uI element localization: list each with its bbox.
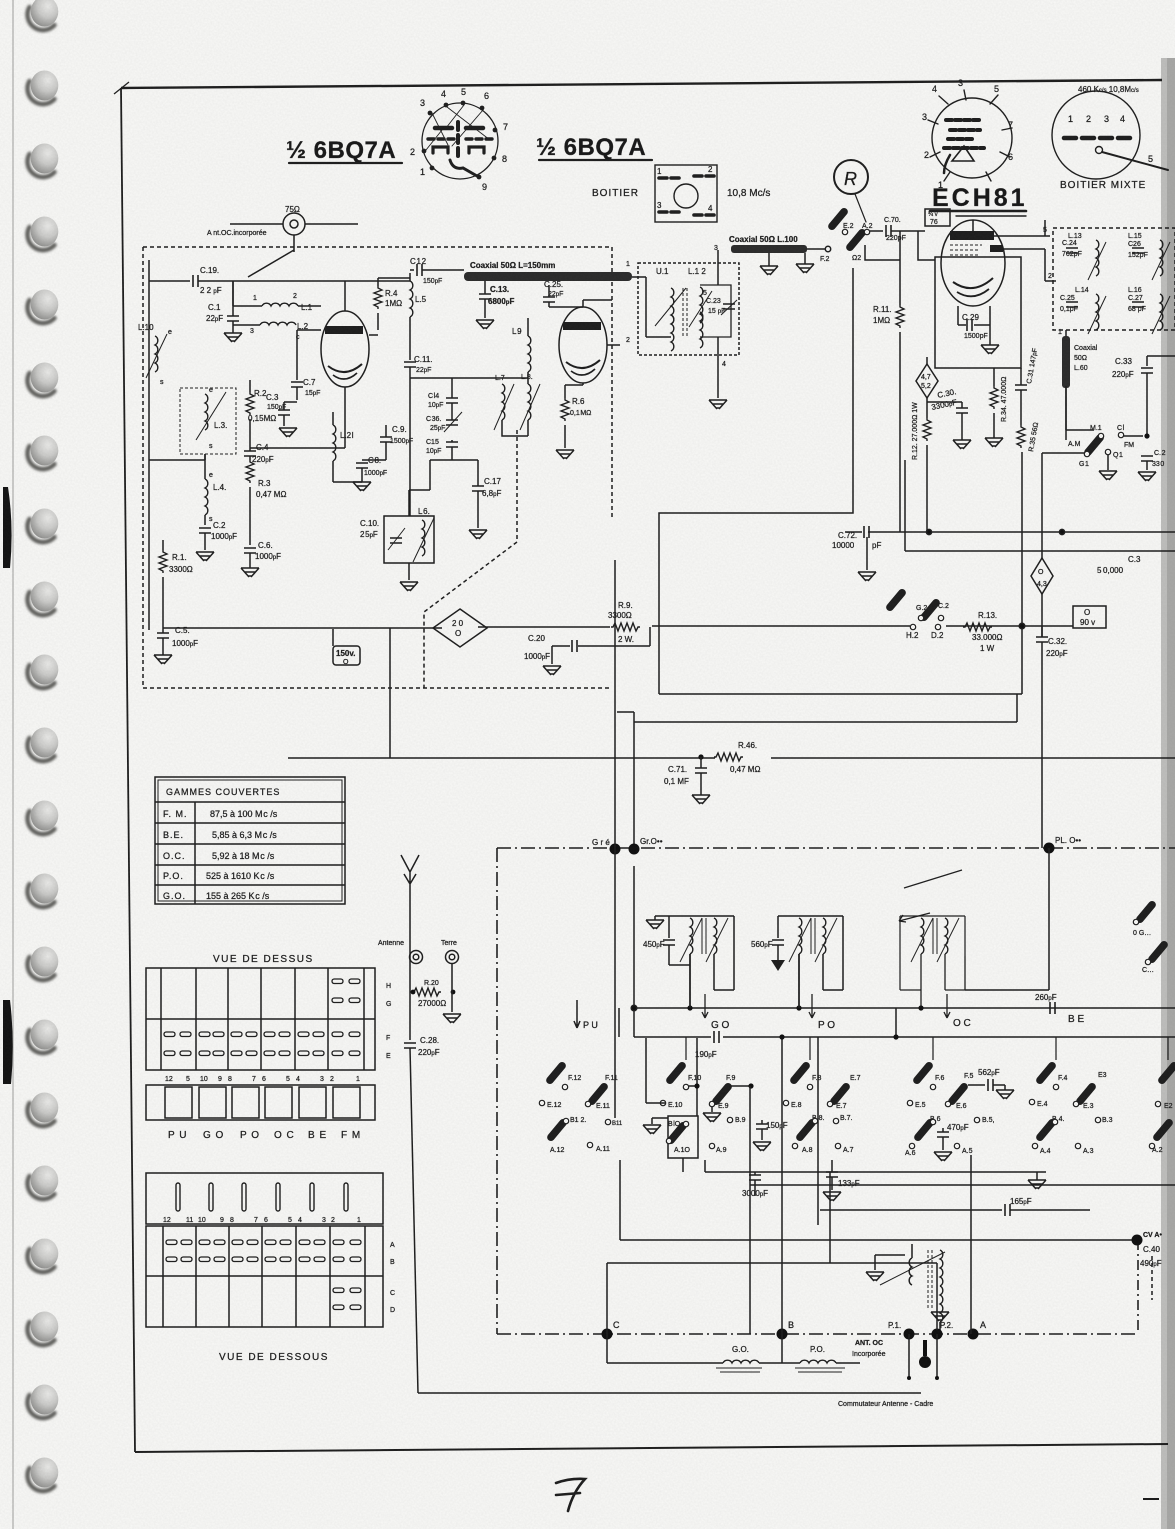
dashed notch [424, 430, 517, 688]
antenna symbol [401, 855, 419, 1040]
node P1 [888, 1321, 915, 1340]
90v box [1073, 606, 1106, 628]
wire y551 [905, 460, 1175, 551]
vertical Gr line x615 [614, 560, 616, 1118]
corner tick [114, 82, 129, 94]
coil L16 [1152, 294, 1170, 334]
capacitor C.28 [404, 1036, 440, 1393]
coax 50ohm L60 vertical [1058, 329, 1098, 440]
capacitor C.12 [410, 257, 442, 285]
numbers row [163, 1217, 361, 1224]
ground under R.34 [985, 438, 1003, 447]
U1 L12 transformer dashed box [626, 250, 739, 368]
capacitor C.19 [149, 266, 410, 295]
switch B.8 A.8 [792, 1115, 824, 1154]
loop antenna frame [607, 1263, 937, 1363]
capacitor C.30 [927, 387, 968, 440]
vertical node B feed [781, 1037, 783, 1334]
BOITIER MIXTE circle [1052, 91, 1168, 179]
switch F.6 [913, 1061, 945, 1089]
P.O. loop coil [795, 1345, 860, 1372]
contact E.12 [539, 1100, 561, 1109]
ground under C.34 [1138, 472, 1156, 481]
capacitor C.11 [404, 355, 433, 378]
coax cable 50ohm L150 [440, 261, 632, 281]
GO label [687, 954, 729, 1031]
switch F.8 [790, 1061, 822, 1089]
long wire from F2 area down-left [659, 268, 853, 694]
OC label [918, 994, 970, 1029]
capacitor C.9 [380, 425, 413, 455]
capacitor C.7 [291, 378, 320, 400]
node B [777, 1320, 795, 1340]
75 ohm antenna connector [283, 205, 305, 235]
chassis bus left vertical [496, 848, 498, 1334]
capacitor 560pF [772, 940, 784, 945]
rail verticals at F blades [686, 1037, 1168, 1060]
capacitor 133pF [826, 1160, 860, 1190]
coax 50ohm L100 (top) [714, 235, 807, 266]
C.3x 50.000pF label right [1097, 555, 1141, 575]
P1 P2 wires down [909, 1334, 937, 1378]
vertical x619 B10 box down [619, 1160, 621, 1240]
ground under L.6 box [400, 582, 418, 591]
ECH81 label [930, 184, 1028, 216]
resistor R.46 [714, 741, 771, 774]
secondary solid box [700, 285, 731, 337]
PO label [796, 954, 835, 1031]
3/4v 76 box [925, 209, 950, 226]
capacitor C.27 [1128, 295, 1146, 313]
core [683, 288, 687, 338]
band labels PU GO PO OC BE FM [168, 1130, 361, 1141]
left page edge line [12, 0, 14, 1529]
FM node [1117, 425, 1150, 449]
resistor R.34 [990, 368, 1008, 438]
capacitor C.15 [426, 439, 458, 460]
ground under C.2 [196, 552, 214, 561]
coil U1 primary [671, 288, 674, 324]
capacitor 3000pF [742, 1172, 768, 1198]
tube socket U1 (6BQ7A pinout) [410, 87, 508, 192]
G.O. loop coil [716, 1345, 762, 1372]
switch A.2 right [1149, 1118, 1173, 1154]
contact E.10 [660, 1100, 682, 1109]
switch H.2 D.2 G.2 C.2 [886, 588, 949, 640]
ground under C.20 [543, 666, 561, 675]
150v box [333, 629, 360, 666]
coil L.21 [333, 412, 354, 470]
ground under C.5 [154, 655, 172, 664]
ground under 470pF [934, 1152, 952, 1161]
chassis bus right vertical [1137, 1240, 1139, 1334]
switch E.9 [703, 1075, 735, 1122]
triode V2 [559, 307, 607, 383]
capacitor 150pF mid [756, 1120, 788, 1140]
ground under L12 [709, 400, 727, 409]
capacitor C.20 [524, 627, 650, 664]
E.10 wire up [646, 1038, 665, 1103]
wire antenna down [248, 235, 294, 277]
diamond 20 ohm [433, 609, 487, 647]
capacitor C.8 [356, 456, 387, 482]
binding holes [28, 0, 59, 1491]
top plate with vertical slots [146, 1173, 383, 1224]
black curl mark upper [3, 487, 12, 568]
tube label ½6BQ7A (first) [286, 137, 402, 164]
wire osc line down [409, 378, 411, 516]
lower collection wires [683, 1158, 1046, 1172]
capacitor C.14 [428, 385, 458, 415]
junction dots on y532 [926, 529, 931, 534]
switch row F/E [539, 1061, 1175, 1122]
capacitor C.24 [1062, 240, 1082, 258]
BOITIER box with crystal [655, 165, 717, 222]
transformer T3 (OC osc) [899, 870, 965, 1008]
capacitor C.5 [157, 626, 198, 655]
capacitor C.4 [244, 443, 274, 464]
switch E.3 [1073, 1072, 1106, 1110]
ground under C.17 [469, 530, 487, 539]
padder coils block [866, 1244, 949, 1330]
capacitor C.33 [1112, 356, 1175, 436]
right dashed box L13-L16 [1053, 228, 1175, 334]
resistor R.3 [246, 460, 286, 545]
vertical node A feed [970, 1155, 972, 1334]
rail lower y1037 [634, 1036, 1175, 1038]
transformer T1 (GO osc) [643, 916, 734, 1008]
ground at left of B10 box [643, 1118, 668, 1134]
ground under R.6 [556, 450, 574, 459]
box B.10 A.10 [666, 1038, 698, 1158]
coil L.1 [233, 293, 313, 312]
switch E.7 [827, 1075, 860, 1110]
slots row H [332, 979, 360, 984]
Terre label and jack [441, 940, 459, 964]
coil L.3 adjustable [196, 387, 227, 450]
slots row C [333, 1288, 361, 1293]
capacitor 470pF [937, 1123, 969, 1150]
switch B.4 A.4 [1032, 1116, 1064, 1155]
resistor R.1 [159, 540, 193, 628]
ECH81 tube envelope [941, 220, 1005, 306]
resistor R.35 [1017, 422, 1040, 453]
capacitor 260pF [1035, 993, 1084, 1025]
coil L.5 [410, 273, 427, 360]
node C [602, 1320, 621, 1340]
switch F.5 562pF [945, 1068, 1005, 1110]
frame left border [121, 88, 135, 1452]
diamond 0/4,3 [1031, 558, 1053, 637]
contact A.3 B.3 [1075, 1117, 1112, 1155]
rail GO/PO/OC y1008 [634, 1007, 1175, 1009]
switch E.2 A.2 [828, 207, 873, 262]
frame bottom border [135, 1444, 1168, 1452]
contact Q.1 with ground [1099, 449, 1123, 480]
main grid [146, 1226, 383, 1327]
ground under C.6 [241, 568, 259, 577]
wire dashed box pin up [1044, 220, 1046, 236]
chassis bus bottom [497, 1333, 1138, 1335]
VUE DE DESSUS switch grid [146, 968, 391, 1141]
coil L.4 [205, 454, 226, 525]
node P2 [932, 1321, 954, 1340]
row letters A B C D [390, 1242, 395, 1314]
slots row D [333, 1305, 361, 1310]
capacitor C.2 [199, 521, 237, 550]
vertical from V1 grid [297, 330, 321, 380]
capacitor 450pF [663, 940, 675, 945]
capacitor 165pF [820, 1197, 1090, 1216]
contact E.2 right [1155, 1101, 1172, 1110]
diamond 4,7/5,2 [916, 357, 938, 418]
contact A.5 B.5 [954, 1117, 994, 1155]
wire R.46 line y757 [288, 757, 1175, 759]
neutralization box around cathode [935, 257, 1021, 368]
wires ECH81 top [973, 220, 1050, 236]
F.10 junction [689, 1085, 697, 1087]
switch row B/A [547, 1038, 1174, 1161]
contact E.5 [907, 1100, 925, 1109]
contact A.9 [709, 1143, 726, 1154]
vertical x750 [749, 1086, 751, 1334]
coil L.8 adjustable [520, 374, 540, 430]
down arrow T2 [777, 952, 779, 960]
capacitor C.25 [543, 280, 583, 307]
GAMMES COUVERTES table [155, 777, 345, 904]
vertical from L6 area down to R46 line [389, 628, 391, 758]
coil L12 secondary [700, 287, 703, 323]
capacitor C.29 [958, 306, 990, 345]
handwritten page number 7 [556, 1479, 585, 1511]
capacitor C.1 [206, 281, 239, 333]
slots row B [166, 1257, 361, 1262]
switch F.12 [546, 1061, 582, 1089]
capacitor C.36 trimmer [426, 412, 462, 432]
wire grid left [902, 230, 925, 232]
slots row A [166, 1240, 361, 1245]
coil L.2 [233, 322, 309, 341]
resistor R.20 [410, 964, 455, 1012]
coil L15 [1152, 240, 1170, 280]
vertical to diamond 4,3 [1041, 453, 1043, 532]
switch A.M M.1 [1042, 386, 1104, 468]
capacitor C.26 [1128, 241, 1148, 259]
ground mid bottom [1028, 1180, 1046, 1189]
main AVC wire y627 [163, 626, 1073, 628]
coil L14 [1088, 294, 1106, 334]
vertical x830 [829, 1172, 831, 1263]
transformer T2 (PO osc) [751, 916, 843, 1008]
triode V1 [321, 311, 369, 387]
ground under coax left [760, 266, 778, 275]
PU feed to rail [618, 1008, 620, 1037]
wire L12 to ground [717, 337, 719, 398]
resistor R.11 [873, 231, 904, 532]
capacitor C.72 [832, 526, 1175, 570]
capacitor C.25b [1060, 295, 1078, 313]
capacitor 190pF [695, 1029, 723, 1059]
switch F.4 [1036, 1061, 1068, 1089]
ground under C.72 [858, 572, 876, 581]
lower cam boxes [146, 1085, 375, 1120]
resistor R.6 [561, 385, 591, 448]
tube socket ECH81 pinout [922, 78, 1013, 190]
switch B.12 A.12 [547, 1117, 587, 1154]
ground under C.30 [953, 440, 971, 449]
wire from R to A.2 [855, 194, 866, 222]
wire y1240 CV A [620, 1232, 1162, 1300]
resistor R.9 [608, 601, 640, 644]
ground under 562pF [996, 1090, 1014, 1099]
circled R [834, 160, 868, 194]
coil L.9 [512, 318, 531, 372]
capacitor C.17 [472, 460, 501, 528]
PU arrow [574, 1000, 598, 1030]
FM tuner dashed enclosure [143, 247, 612, 688]
capacitor C.31 [1015, 348, 1039, 425]
page dash right [1143, 1498, 1159, 1500]
ground under C.8 [353, 482, 371, 491]
vertical main x1042 [1041, 532, 1043, 558]
ground under C.1 [224, 333, 242, 342]
F.9 junction [731, 1085, 751, 1087]
contact E.8 [783, 1100, 801, 1109]
capacitor C.13 [479, 281, 514, 318]
capacitor C.70 [870, 217, 906, 242]
capacitor C.32 [1036, 626, 1068, 848]
capacitor C.23 trimmer [723, 304, 735, 309]
resistor R.12 [912, 402, 931, 532]
ground under C.29 [981, 345, 999, 354]
node Gr.e [592, 838, 621, 855]
right scan edge gray band [1161, 58, 1175, 1529]
slots row G [332, 998, 360, 1003]
wire L10-L4 junction [149, 454, 205, 460]
trimmer arrows [655, 288, 712, 327]
blade contacts right margin G/C [1133, 900, 1168, 974]
wires [632, 277, 671, 337]
vertical oscillator feed from Gr.Ose [633, 866, 635, 1037]
ground under coax right [796, 264, 814, 273]
C.10 L.6 resonator box [360, 507, 434, 580]
ground under C.71 [692, 795, 710, 804]
node A [968, 1320, 987, 1340]
switch F.10 [666, 1061, 702, 1089]
node PL.Ose [965, 836, 1081, 990]
wire V2 top [583, 300, 612, 307]
contact E.4 [1029, 1099, 1047, 1108]
contact B.9 [727, 1117, 745, 1124]
switch F.11 E.11 [585, 1075, 618, 1110]
black curl mark lower [3, 1000, 13, 1084]
switch B.6 A.6 [905, 1116, 941, 1157]
ground under C.13 [476, 320, 494, 329]
frame top border [121, 80, 1162, 88]
dashed core box around L.3 [180, 388, 236, 454]
slots row F [164, 1032, 360, 1037]
ground under 133pF [823, 1192, 841, 1201]
ground under Terre [443, 1014, 461, 1023]
capacitor C.71 [664, 754, 707, 795]
resistor R.4 [374, 278, 402, 330]
contact numbers row [165, 1076, 360, 1083]
vertical right box edge [817, 1037, 819, 1225]
contact A.11 [587, 1119, 623, 1153]
tube label ½6BQ7A (second) [536, 134, 652, 161]
capacitor C.6 [244, 541, 281, 568]
F.2 terminal [807, 246, 831, 263]
Antenne label and jack [378, 940, 423, 964]
wires inside FM box [232, 281, 234, 306]
capacitor C.34 [1141, 450, 1166, 470]
contact B.7 A.7 [833, 1115, 853, 1154]
ANT OC terminal [852, 1340, 931, 1368]
coil L13 [1088, 240, 1106, 280]
junction dot x1024 y625 [1019, 623, 1025, 629]
VUE DE DESSOUS switch assembly [146, 1173, 395, 1363]
coil L.10 adjustable [138, 323, 172, 386]
wire antenna horizontal [230, 223, 358, 225]
resistor R.13 [963, 611, 1002, 653]
ground T1 [654, 916, 656, 920]
row letters H G F E [386, 983, 391, 1060]
ground under C.3 [279, 428, 297, 437]
coil L.7 adjustable [494, 375, 514, 430]
ground under 150pF [753, 1142, 771, 1151]
vertical main x1024 [1021, 452, 1023, 694]
node Gr.Ose [629, 837, 663, 855]
capacitor C.3 [266, 393, 297, 426]
chassis bus Gr dash-dot [497, 847, 1175, 849]
left vertical bus [148, 260, 150, 630]
switch far right F [1158, 1061, 1175, 1084]
slots row E [164, 1051, 360, 1056]
resistor R.2 [246, 380, 276, 448]
inner solid box left [418, 1392, 921, 1394]
